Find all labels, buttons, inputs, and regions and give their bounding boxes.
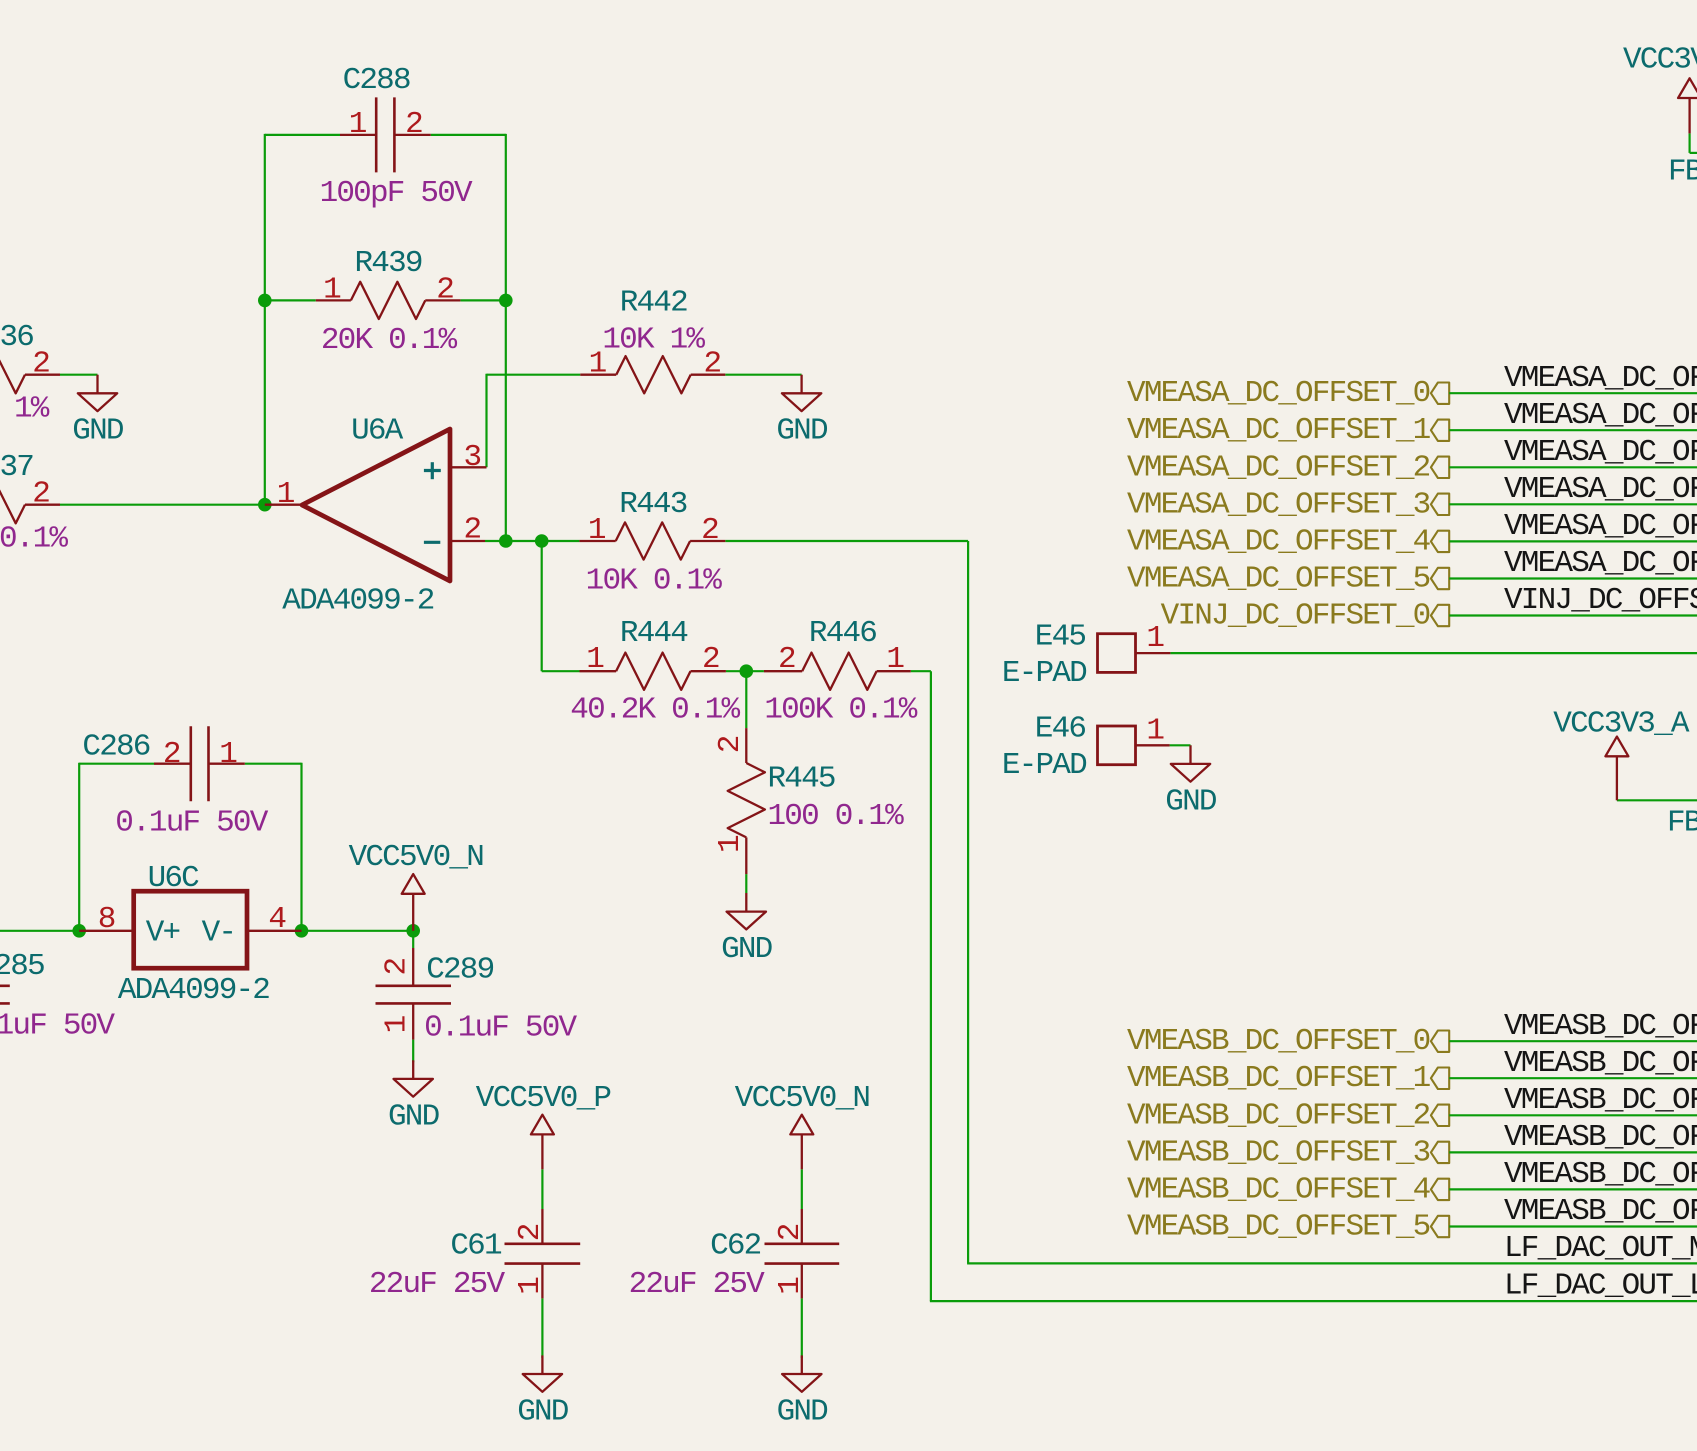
svg-text:2: 2 xyxy=(32,347,49,382)
svg-text:VMEASA_DC_OFFSET_1_BUF: VMEASA_DC_OFFSET_1_BUF xyxy=(1504,398,1697,433)
svg-text:1: 1 xyxy=(349,107,367,142)
svg-text:C289: C289 xyxy=(426,953,493,988)
svg-text:100 0.1%: 100 0.1% xyxy=(768,799,905,834)
svg-text:VCC5V0_N: VCC5V0_N xyxy=(349,840,484,875)
svg-text:2: 2 xyxy=(464,513,481,548)
svg-text:VMEASB_DC_OFFSET_1_BUF: VMEASB_DC_OFFSET_1_BUF xyxy=(1504,1046,1697,1081)
svg-text:1: 1 xyxy=(380,1015,415,1033)
svg-text:VMEASB_DC_OFFSET_5_BUF: VMEASB_DC_OFFSET_5_BUF xyxy=(1504,1194,1697,1229)
svg-text:2: 2 xyxy=(773,1224,808,1241)
svg-text:VINJ_DC_OFFSET_0_BUF: VINJ_DC_OFFSET_0_BUF xyxy=(1504,583,1697,618)
svg-text:2: 2 xyxy=(713,736,748,753)
svg-text:4: 4 xyxy=(268,902,286,937)
svg-text:VMEASA_DC_OFFSET_5: VMEASA_DC_OFFSET_5 xyxy=(1127,562,1430,597)
svg-text:VMEASA_DC_OFFSET_2: VMEASA_DC_OFFSET_2 xyxy=(1127,450,1430,485)
svg-text:100pF 50V: 100pF 50V xyxy=(320,176,473,211)
svg-text:VINJ_DC_OFFSET_0: VINJ_DC_OFFSET_0 xyxy=(1161,599,1430,634)
svg-text:1: 1 xyxy=(589,347,607,382)
svg-text:1: 1 xyxy=(586,642,604,677)
svg-text:VMEASB_DC_OFFSET_4_BUF: VMEASB_DC_OFFSET_4_BUF xyxy=(1504,1157,1697,1192)
svg-text:ADA4099-2: ADA4099-2 xyxy=(118,973,269,1008)
svg-text:VMEASB_DC_OFFSET_3_BUF: VMEASB_DC_OFFSET_3_BUF xyxy=(1504,1120,1697,1155)
svg-text:VCC3V3_A: VCC3V3_A xyxy=(1553,707,1690,742)
svg-text:37: 37 xyxy=(0,450,33,485)
svg-text:2: 2 xyxy=(32,477,49,512)
svg-text:22uF 25V: 22uF 25V xyxy=(369,1267,506,1302)
svg-text:VMEASA_DC_OFFSET_3: VMEASA_DC_OFFSET_3 xyxy=(1127,487,1430,522)
svg-text:1: 1 xyxy=(588,513,606,548)
svg-text:GND: GND xyxy=(1165,784,1217,819)
svg-text:GND: GND xyxy=(777,1394,829,1429)
svg-text:VMEASB_DC_OFFSET_0_BUF: VMEASB_DC_OFFSET_0_BUF xyxy=(1504,1009,1697,1044)
svg-text:U6C: U6C xyxy=(148,861,200,896)
svg-text:36: 36 xyxy=(0,320,33,355)
svg-text:GND: GND xyxy=(721,932,773,967)
svg-text:VCC5V0_P: VCC5V0_P xyxy=(476,1081,611,1116)
svg-text:R443: R443 xyxy=(619,487,686,522)
svg-text:VMEASB_DC_OFFSET_5: VMEASB_DC_OFFSET_5 xyxy=(1127,1210,1430,1245)
svg-text:FB5: FB5 xyxy=(1667,805,1697,840)
svg-text:1: 1 xyxy=(219,737,237,772)
svg-text:C285: C285 xyxy=(0,949,44,984)
svg-text:LF_DAC_OUT_MEAS: LF_DAC_OUT_MEAS xyxy=(1504,1231,1697,1266)
svg-text:22uF 25V: 22uF 25V xyxy=(629,1267,766,1302)
svg-text:10K 1%: 10K 1% xyxy=(602,323,705,358)
svg-text:0.1uF 50V: 0.1uF 50V xyxy=(0,1008,115,1043)
svg-text:E46: E46 xyxy=(1035,712,1086,747)
svg-text:2: 2 xyxy=(701,513,718,548)
svg-text:C62: C62 xyxy=(710,1229,761,1264)
svg-text:2: 2 xyxy=(704,347,721,382)
svg-text:C286: C286 xyxy=(82,730,149,765)
svg-text:1: 1 xyxy=(277,477,295,512)
svg-text:100K 0.1%: 100K 0.1% xyxy=(764,693,917,728)
svg-text:VMEASB_DC_OFFSET_2_BUF: VMEASB_DC_OFFSET_2_BUF xyxy=(1504,1083,1697,1118)
svg-text:R446: R446 xyxy=(809,616,876,651)
svg-text:8: 8 xyxy=(98,902,115,937)
svg-text:0.1%: 0.1% xyxy=(0,522,68,557)
svg-text:GND: GND xyxy=(72,414,124,449)
svg-text:U6A: U6A xyxy=(351,414,404,449)
svg-text:VMEASA_DC_OFFSET_4_BUF: VMEASA_DC_OFFSET_4_BUF xyxy=(1504,509,1697,544)
svg-text:3: 3 xyxy=(464,440,481,475)
svg-text:C61: C61 xyxy=(450,1229,502,1264)
svg-text:VMEASA_DC_OFFSET_0: VMEASA_DC_OFFSET_0 xyxy=(1127,376,1430,411)
svg-text:20K 0.1%: 20K 0.1% xyxy=(321,323,458,358)
svg-text:1: 1 xyxy=(773,1277,808,1295)
svg-text:VMEASA_DC_OFFSET_2_BUF: VMEASA_DC_OFFSET_2_BUF xyxy=(1504,435,1697,470)
svg-text:R445: R445 xyxy=(768,761,835,796)
svg-text:2: 2 xyxy=(436,272,453,307)
svg-text:2: 2 xyxy=(163,737,180,772)
svg-text:2: 2 xyxy=(778,642,795,677)
svg-text:E-PAD: E-PAD xyxy=(1002,656,1087,691)
svg-text:VMEASA_DC_OFFSET_1: VMEASA_DC_OFFSET_1 xyxy=(1127,413,1431,448)
svg-text:VMEASA_DC_OFFSET_4: VMEASA_DC_OFFSET_4 xyxy=(1127,524,1431,559)
svg-text:FB6: FB6 xyxy=(1668,154,1697,189)
svg-text:E45: E45 xyxy=(1035,620,1086,655)
svg-text:10K 0.1%: 10K 0.1% xyxy=(586,564,723,599)
svg-text:V-: V- xyxy=(202,915,236,950)
svg-text:C288: C288 xyxy=(343,63,410,98)
svg-text:VMEASB_DC_OFFSET_4: VMEASB_DC_OFFSET_4 xyxy=(1127,1172,1431,1207)
svg-text:V+: V+ xyxy=(146,915,180,950)
svg-text:R439: R439 xyxy=(354,246,421,281)
svg-text:VCC3V3_A: VCC3V3_A xyxy=(1623,43,1697,78)
svg-text:2: 2 xyxy=(405,107,422,142)
svg-text:GND: GND xyxy=(776,414,828,449)
svg-text:2: 2 xyxy=(380,959,415,976)
svg-text:1: 1 xyxy=(713,835,748,853)
svg-text:1%: 1% xyxy=(14,392,50,427)
svg-text:VMEASA_DC_OFFSET_5_BUF: VMEASA_DC_OFFSET_5_BUF xyxy=(1504,546,1697,581)
svg-text:1: 1 xyxy=(323,272,341,307)
svg-text:1: 1 xyxy=(1146,713,1164,748)
svg-text:VMEASB_DC_OFFSET_0: VMEASB_DC_OFFSET_0 xyxy=(1127,1024,1430,1059)
svg-text:0.1uF 50V: 0.1uF 50V xyxy=(115,805,268,840)
svg-text:VCC5V0_N: VCC5V0_N xyxy=(735,1081,870,1116)
svg-text:VMEASA_DC_OFFSET_3_BUF: VMEASA_DC_OFFSET_3_BUF xyxy=(1504,472,1697,507)
svg-text:GND: GND xyxy=(517,1394,569,1429)
svg-text:VMEASB_DC_OFFSET_1: VMEASB_DC_OFFSET_1 xyxy=(1127,1061,1431,1096)
svg-text:40.2K 0.1%: 40.2K 0.1% xyxy=(570,693,740,728)
svg-text:R442: R442 xyxy=(620,286,687,321)
svg-text:GND: GND xyxy=(388,1099,440,1134)
svg-text:ADA4099-2: ADA4099-2 xyxy=(282,583,433,618)
svg-text:LF_DAC_OUT_LOAD: LF_DAC_OUT_LOAD xyxy=(1504,1269,1697,1304)
svg-text:2: 2 xyxy=(702,642,719,677)
svg-text:0.1uF 50V: 0.1uF 50V xyxy=(424,1010,577,1045)
svg-text:VMEASB_DC_OFFSET_2: VMEASB_DC_OFFSET_2 xyxy=(1127,1098,1430,1133)
svg-text:E-PAD: E-PAD xyxy=(1002,748,1087,783)
svg-text:1: 1 xyxy=(513,1277,548,1295)
svg-text:R444: R444 xyxy=(620,616,688,651)
svg-text:VMEASA_DC_OFFSET_0_BUF: VMEASA_DC_OFFSET_0_BUF xyxy=(1504,361,1697,396)
svg-text:2: 2 xyxy=(513,1224,548,1241)
svg-text:VMEASB_DC_OFFSET_3: VMEASB_DC_OFFSET_3 xyxy=(1127,1135,1430,1170)
svg-text:1: 1 xyxy=(886,642,904,677)
